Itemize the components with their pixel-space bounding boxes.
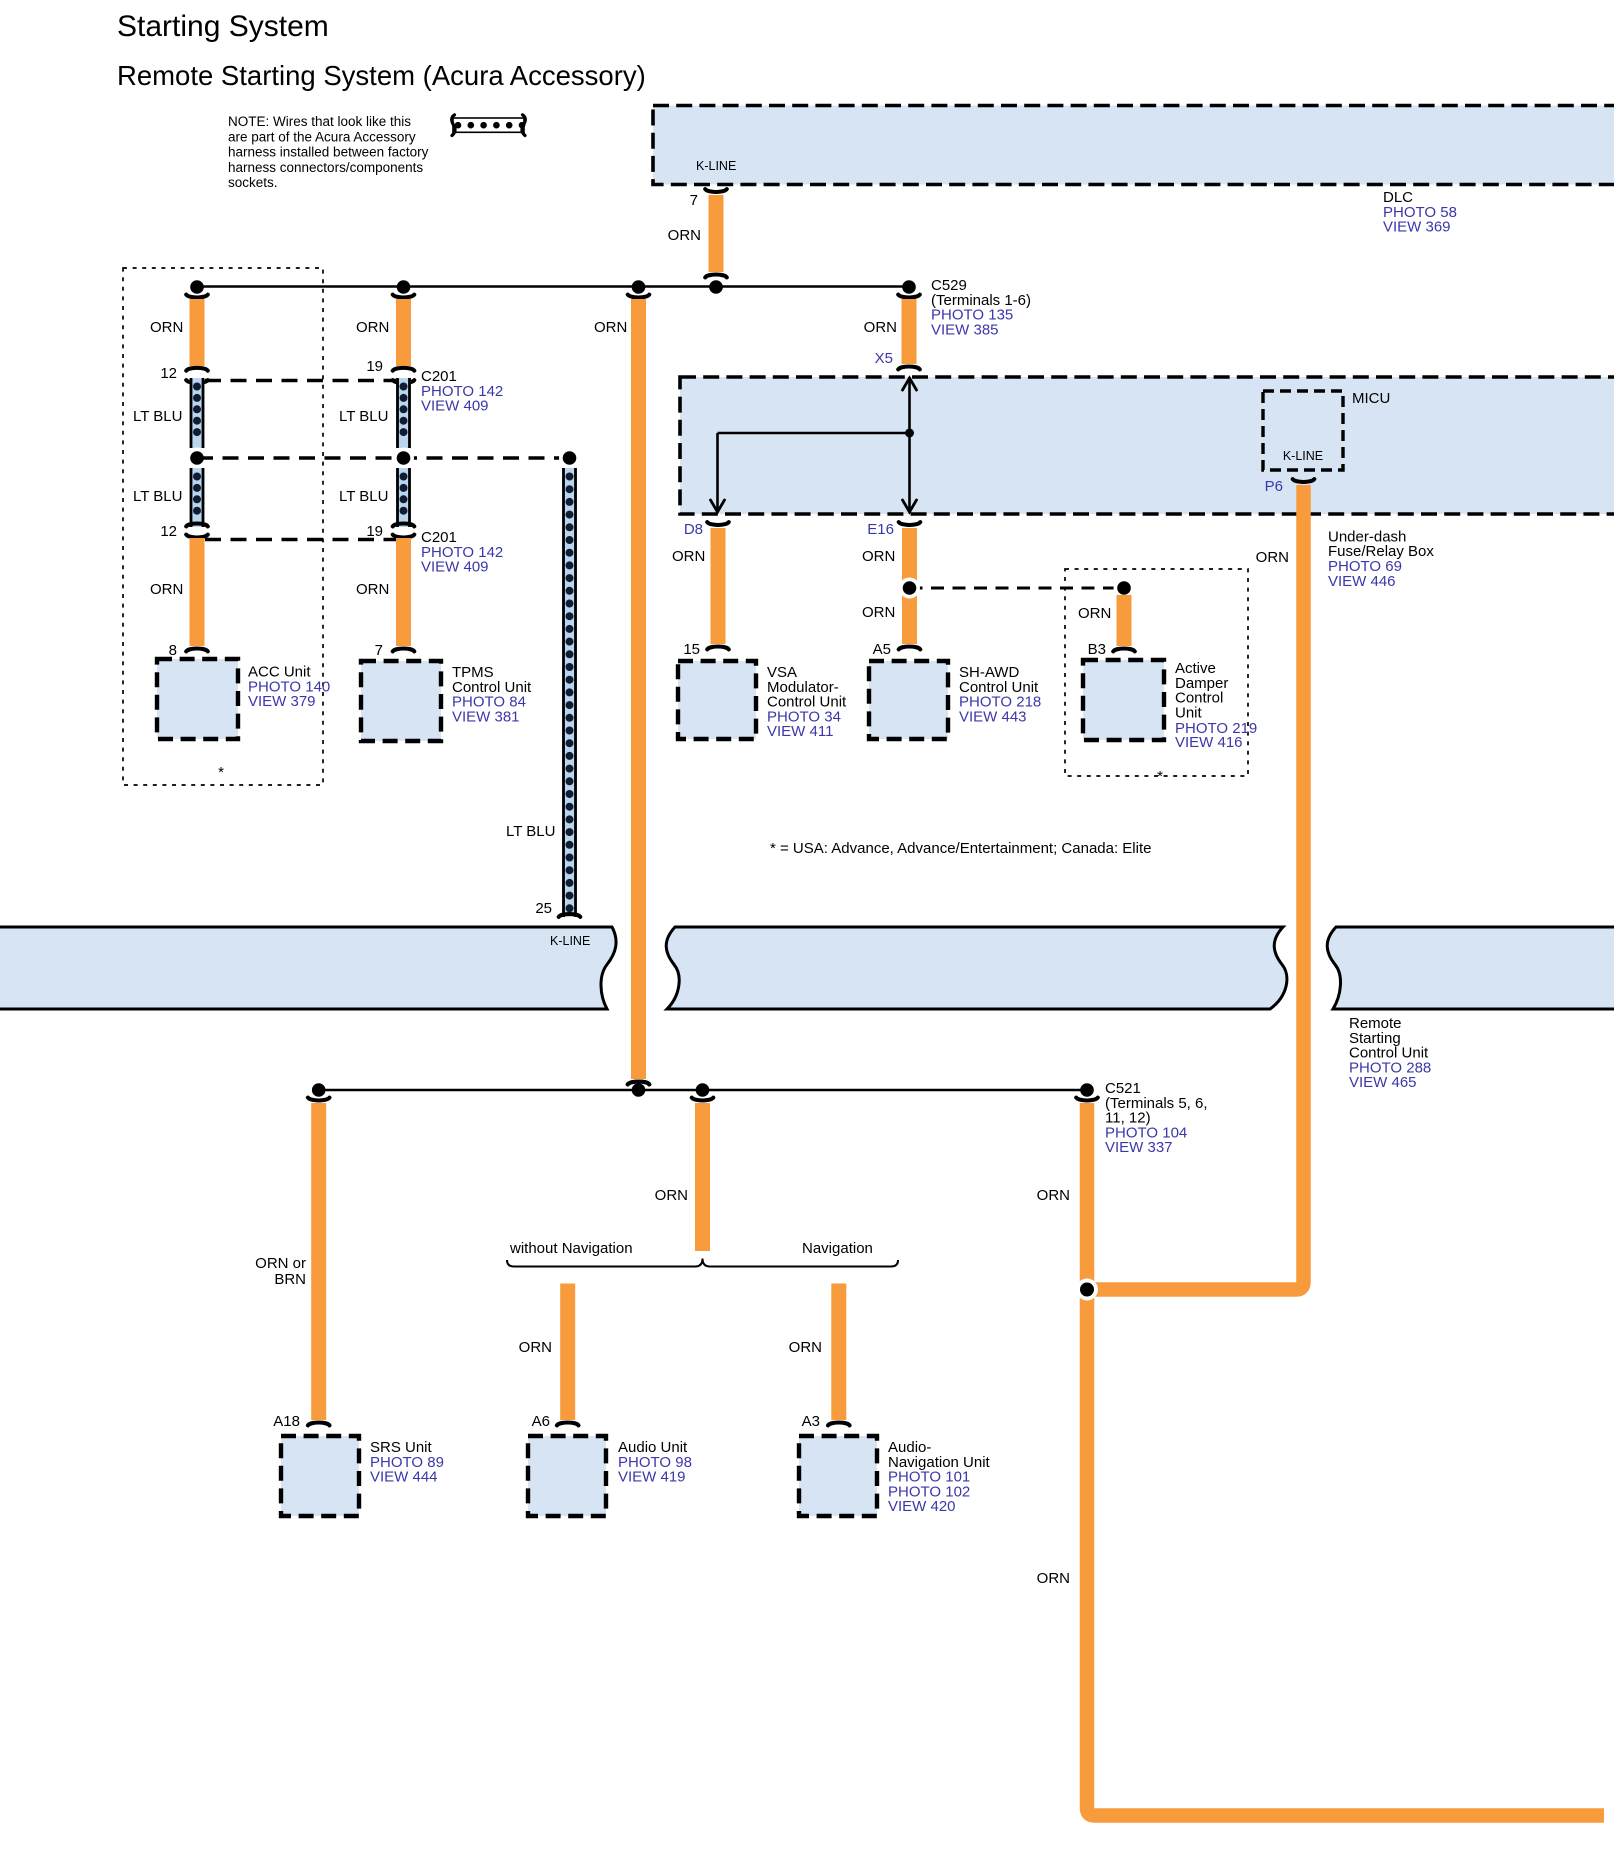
- wire LT BLU (accessory, upper left): [186, 380, 208, 383]
- wire ORN to active damper: [1117, 595, 1132, 646]
- svg-text:K-LINE: K-LINE: [550, 934, 590, 948]
- C201 splice dashed line upper: [205, 379, 396, 382]
- TPMS Control Unit box: [361, 661, 441, 741]
- wire ORN long center: [631, 299, 646, 1079]
- node SRS branch: [312, 1083, 326, 1097]
- svg-text:BRN: BRN: [274, 1271, 306, 1288]
- wire ORN C529 to MICU X5: [902, 299, 917, 364]
- dash-dot option box (right, *): [1065, 569, 1248, 776]
- svg-text:*: *: [1157, 768, 1163, 785]
- node: junction of P6 wire and C521 wire: [1076, 1279, 1098, 1301]
- node: LT BLU junction left: [187, 448, 208, 469]
- accessory wire sample symbol: [452, 115, 526, 136]
- svg-text:P6: P6: [1265, 478, 1283, 495]
- node: junction accessory link: [559, 448, 580, 469]
- wire ORN E16 to SH-AWD: [902, 528, 917, 644]
- svg-text:ORN: ORN: [1256, 549, 1289, 566]
- svg-text:Navigation: Navigation: [802, 1240, 873, 1257]
- wire ORN to TPMS unit: [396, 538, 411, 646]
- svg-text:harness installed between fact: harness installed between factory: [228, 145, 429, 160]
- svg-text:VIEW 409: VIEW 409: [421, 559, 489, 576]
- svg-text:LT BLU: LT BLU: [133, 408, 182, 425]
- node C521: [1080, 1083, 1094, 1097]
- SRS Unit box: [281, 1436, 359, 1516]
- svg-text:* = USA: Advance, Advance/Ent: * = USA: Advance, Advance/Entertainment;…: [770, 840, 1151, 857]
- svg-text:VIEW 420: VIEW 420: [888, 1498, 956, 1515]
- wire ORN to ACC unit: [190, 538, 205, 646]
- node on E16 wire: [899, 578, 920, 599]
- svg-text:ORN: ORN: [862, 548, 895, 565]
- MICU box: [680, 377, 1614, 514]
- node inside MICU: [905, 429, 914, 438]
- C201 splice dashed line lower: [205, 538, 396, 541]
- wire ORN (TPMS branch upper): [396, 299, 411, 366]
- node C529 on bus: [902, 280, 916, 294]
- svg-text:ORN: ORN: [150, 581, 183, 598]
- svg-text:ORN: ORN: [1037, 1570, 1070, 1587]
- dashed accessory link to active damper: [910, 587, 1125, 590]
- Audio Unit box: [528, 1436, 606, 1516]
- svg-text:sockets.: sockets.: [228, 175, 278, 190]
- SH-AWD Control Unit box: [869, 661, 948, 739]
- svg-text:ORN: ORN: [672, 548, 705, 565]
- svg-text:D8: D8: [684, 521, 703, 538]
- svg-text:19: 19: [366, 523, 383, 540]
- svg-text:Starting System: Starting System: [117, 10, 329, 43]
- K-LINE bus bar middle: [666, 927, 1287, 1009]
- wire ORN audio stub: [695, 1103, 710, 1251]
- svg-text:ORN: ORN: [789, 1339, 822, 1356]
- svg-text:LT BLU: LT BLU: [339, 488, 388, 505]
- node: LT BLU junction mid: [393, 448, 414, 469]
- svg-text:A5: A5: [873, 641, 891, 658]
- wire: main horizontal K-line bus: [197, 285, 909, 288]
- wire LT BLU (accessory, long K-line): [562, 468, 577, 917]
- svg-text:E16: E16: [867, 521, 894, 538]
- K-LINE box inside MICU: [1263, 391, 1343, 470]
- svg-text:VIEW 369: VIEW 369: [1383, 219, 1451, 236]
- svg-text:ORN: ORN: [862, 604, 895, 621]
- wire LT BLU (accessory, lower left): [190, 468, 205, 527]
- svg-text:LT BLU: LT BLU: [339, 408, 388, 425]
- svg-text:without Navigation: without Navigation: [509, 1240, 633, 1257]
- svg-text:VIEW 409: VIEW 409: [421, 398, 489, 415]
- node: junction on bus (DLC pin 7): [709, 280, 723, 294]
- svg-text:MICU: MICU: [1352, 390, 1390, 407]
- Audio-Navigation Unit box: [799, 1436, 877, 1516]
- svg-text:ORN: ORN: [668, 227, 701, 244]
- ACC Unit box: [157, 659, 238, 739]
- svg-text:A6: A6: [532, 1413, 550, 1430]
- svg-text:VIEW 465: VIEW 465: [1349, 1074, 1417, 1091]
- node: junction on bus (TPMS branch): [397, 280, 411, 294]
- wire ORN from C521 down to remote starting control unit: [1087, 1103, 1604, 1816]
- svg-text:VIEW 416: VIEW 416: [1175, 734, 1243, 751]
- svg-text:VIEW 379: VIEW 379: [248, 693, 316, 710]
- wire ORN to audio unit: [560, 1284, 575, 1421]
- svg-text:A3: A3: [802, 1413, 820, 1430]
- svg-text:VIEW 381: VIEW 381: [452, 708, 520, 725]
- svg-text:ORN: ORN: [356, 319, 389, 336]
- node: junction on bus (ACC branch): [190, 280, 204, 294]
- svg-text:VIEW 337: VIEW 337: [1105, 1139, 1173, 1156]
- svg-text:LT BLU: LT BLU: [506, 823, 555, 840]
- svg-text:X5: X5: [875, 350, 893, 367]
- node center on C521 bus: [632, 1083, 646, 1097]
- wire LT BLU (accessory, upper mid): [393, 380, 415, 383]
- svg-text:A18: A18: [273, 1413, 300, 1430]
- node active damper branch: [1114, 578, 1135, 599]
- svg-text:7: 7: [690, 192, 698, 209]
- wire ORN/BRN to SRS: [311, 1103, 326, 1420]
- svg-text:Remote Starting System (Acura: Remote Starting System (Acura Accessory): [117, 60, 646, 91]
- svg-text:VIEW 419: VIEW 419: [618, 1469, 686, 1486]
- svg-text:ORN: ORN: [1078, 605, 1111, 622]
- wire ORN from P6 down and left to junction: [1090, 485, 1304, 1290]
- svg-text:VIEW 446: VIEW 446: [1328, 573, 1396, 590]
- svg-text:ORN: ORN: [594, 319, 627, 336]
- DLC K-LINE box: [653, 106, 1614, 185]
- svg-text:ORN: ORN: [864, 319, 897, 336]
- svg-text:harness connectors/components: harness connectors/components: [228, 160, 423, 175]
- svg-text:NOTE: Wires that look like thi: NOTE: Wires that look like this: [228, 114, 411, 129]
- svg-text:19: 19: [366, 358, 383, 375]
- svg-text:K-LINE: K-LINE: [696, 159, 736, 173]
- VSA Modulator-Control Unit box: [678, 661, 756, 739]
- svg-text:25: 25: [535, 900, 552, 917]
- svg-text:ORN: ORN: [1037, 1187, 1070, 1204]
- svg-text:LT BLU: LT BLU: [133, 488, 182, 505]
- wire ORN (ACC branch upper): [190, 299, 205, 366]
- K-LINE bus bar right: [1327, 927, 1614, 1009]
- svg-text:ORN or: ORN or: [255, 1255, 306, 1272]
- K-LINE bus bar left: [0, 927, 616, 1009]
- svg-text:VIEW 444: VIEW 444: [370, 1469, 438, 1486]
- svg-text:K-LINE: K-LINE: [1283, 449, 1323, 463]
- dash-dot option box (left, *): [123, 268, 323, 785]
- svg-text:VIEW 385: VIEW 385: [931, 321, 999, 338]
- wire LT BLU (accessory, lower mid): [396, 468, 411, 527]
- svg-text:VIEW 443: VIEW 443: [959, 708, 1027, 725]
- svg-text:*: *: [218, 764, 224, 781]
- svg-text:12: 12: [160, 523, 177, 540]
- svg-text:15: 15: [683, 641, 700, 658]
- svg-text:ORN: ORN: [150, 319, 183, 336]
- wire ORN to audio-navigation unit: [831, 1284, 846, 1421]
- node: junction on bus (center): [632, 280, 646, 294]
- wire: C521 horizontal bus: [319, 1089, 1087, 1092]
- wire ORN D8 to VSA: [711, 528, 726, 644]
- svg-text:7: 7: [375, 642, 383, 659]
- internal arrow lines of MICU: [908, 381, 911, 509]
- svg-text:12: 12: [160, 365, 177, 382]
- svg-text:ORN: ORN: [519, 1339, 552, 1356]
- svg-text:B3: B3: [1088, 641, 1106, 658]
- Active Damper Control Unit box: [1083, 660, 1164, 740]
- svg-text:8: 8: [169, 642, 177, 659]
- node audio branch: [696, 1083, 710, 1097]
- svg-text:ORN: ORN: [655, 1187, 688, 1204]
- svg-text:VIEW 411: VIEW 411: [767, 723, 833, 740]
- wire ORN from DLC pin 7: [709, 195, 724, 272]
- svg-text:are part of the Acura Accessor: are part of the Acura Accessory: [228, 129, 416, 144]
- brace without/with navigation: [507, 1259, 898, 1267]
- dashed accessory link line (middle): [197, 456, 570, 459]
- svg-text:ORN: ORN: [356, 581, 389, 598]
